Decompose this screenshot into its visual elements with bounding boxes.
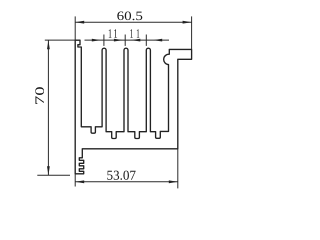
arrow fin dim 3 [131,39,140,42]
arrow fin dim 4 [153,39,162,42]
dimension line 70 [47,40,49,175]
extension tick fin 3 [145,35,147,46]
extension line right (60.5) [191,16,193,49]
arrow 53.07 right [169,180,178,183]
extension line top (70) [45,39,80,41]
extension line right (53.07) [177,149,179,189]
extension line left (60.5) [74,16,76,40]
label 1 (second) [114,29,117,38]
arrowheads [47,21,192,183]
dimension graphics [37,16,191,188]
arrow 70 bottom [47,166,50,175]
label 1 (third) [130,29,133,38]
label 53.07 [107,171,135,180]
dimension line 60.5 [75,21,191,23]
extension line bottom (70) [37,174,70,176]
arrow 70 top [47,40,50,49]
arrow 60.5 left [75,21,84,24]
dimension texts (glyph outlines) [35,12,142,180]
label 1 (fourth) [137,29,140,38]
extension line left (53.07) [74,174,76,187]
label 60.5 [117,12,142,21]
dimension line fin pitch (1 1 / 1 1) [85,39,170,41]
extension tick fin 2 [124,35,126,46]
label 70 (rotated) [35,87,44,104]
extension tick fin 1 [103,35,105,46]
arrow 53.07 left [75,180,84,183]
arrow fin dim 2 [114,39,123,42]
label 1 (first) [109,29,112,38]
arrow fin dim 1 [92,39,101,42]
extrusion profile outline [75,40,191,174]
dimension line 53.07 [75,181,178,183]
arrow 60.5 right [183,21,192,24]
